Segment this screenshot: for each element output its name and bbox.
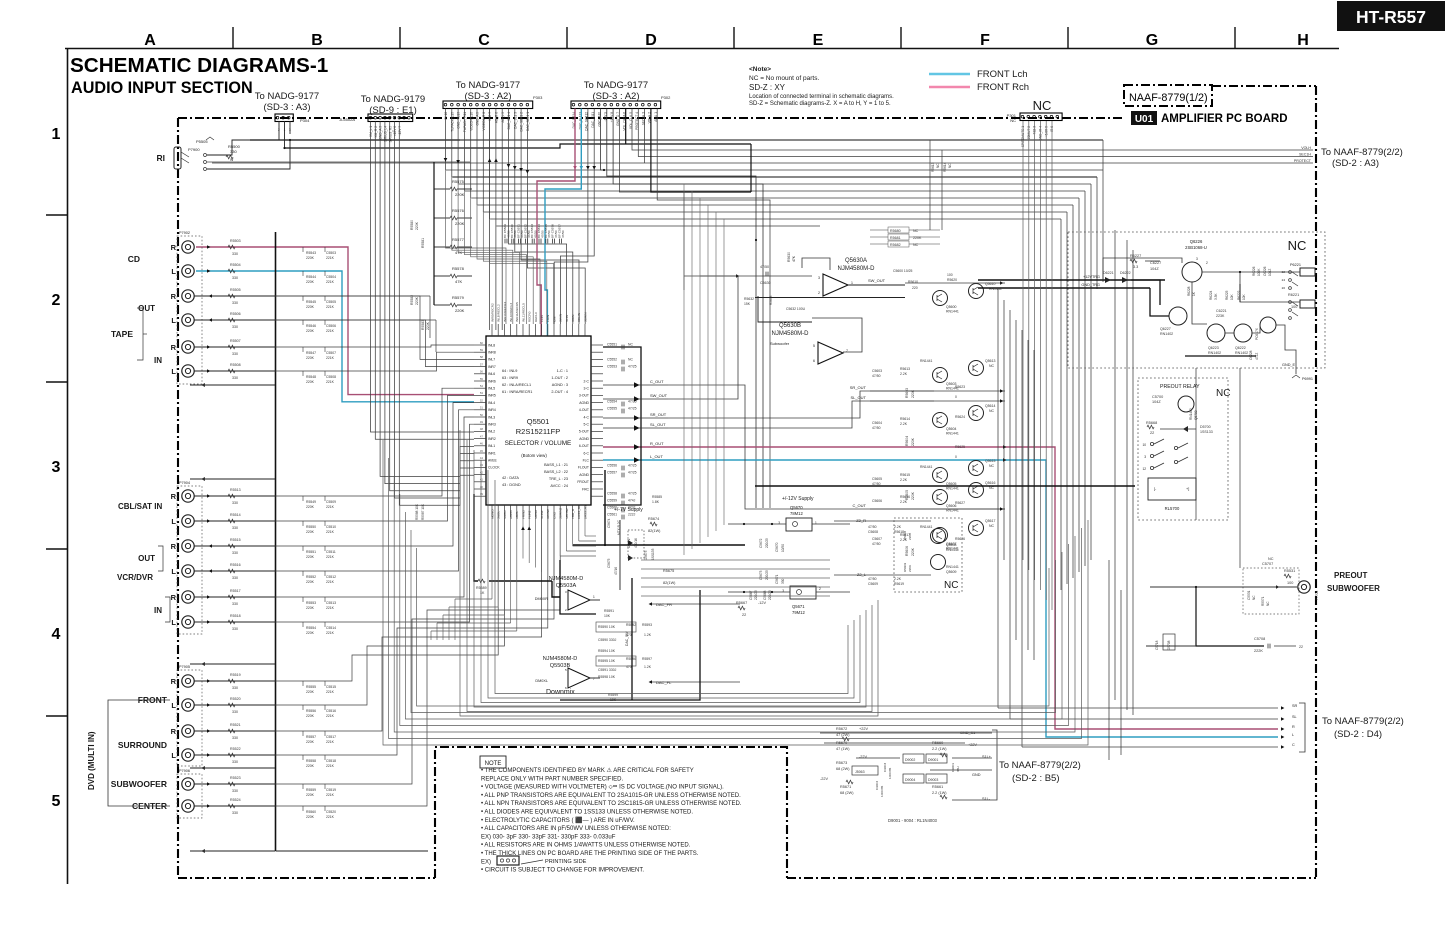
svg-text:VOLH: VOLH (1301, 146, 1311, 150)
wire VOLH (655, 149, 1313, 151)
svg-text:• VOLTAGE (MEASURED WITH VOLTM: • VOLTAGE (MEASURED WITH VOLTMETER) ⬦▭ I… (481, 785, 724, 791)
svg-text:221K: 221K (326, 256, 335, 260)
svg-text:2.2K: 2.2K (900, 478, 908, 482)
svg-text:47: 47 (480, 434, 484, 438)
svg-text:R5614: R5614 (900, 417, 910, 421)
svg-text:SBLIN2: SBLIN2 (565, 508, 569, 519)
svg-text:C6227: C6227 (1150, 261, 1161, 265)
wire P303 into IC top (446, 170, 507, 324)
svg-text:C5516: C5516 (326, 709, 336, 713)
svg-text:220/25: 220/25 (765, 570, 769, 580)
svg-text:C5518: C5518 (326, 759, 336, 763)
svg-text:F: F (980, 32, 990, 49)
svg-text:To NAAF-8779(2/2): To NAAF-8779(2/2) (1321, 147, 1403, 158)
svg-text:R5630: R5630 (787, 252, 791, 262)
svg-text:3: 3 (818, 276, 820, 280)
svg-text:ADCL: ADCL (515, 510, 519, 519)
svg-text:5-OUT: 5-OUT (579, 430, 589, 434)
buffer outputs (870, 390, 1005, 392)
svg-text:3.3K: 3.3K (1214, 293, 1218, 300)
svg-text:(SD-3 : A2): (SD-3 : A2) (465, 91, 512, 102)
svg-text:R5613: R5613 (931, 162, 935, 172)
wire CD R to IC (magenta) (196, 247, 474, 395)
svg-text:SLIN: SLIN (565, 315, 569, 322)
svg-text:BASS_R2: BASS_R2 (577, 505, 581, 519)
svg-text:1SS133: 1SS133 (651, 548, 655, 560)
svg-text:47/25: 47/25 (628, 464, 637, 468)
svg-text:P7905: P7905 (179, 665, 190, 669)
svg-text:R5605: R5605 (905, 490, 909, 500)
svg-text:220K: 220K (911, 547, 915, 556)
svg-text:R5523: R5523 (230, 776, 241, 780)
svg-text:20: 20 (1282, 286, 1286, 290)
svg-text:FLIN: FLIN (540, 315, 544, 322)
svg-text:47/50: 47/50 (561, 230, 565, 238)
svg-text:63 : INR9: 63 : INR9 (502, 376, 518, 380)
svg-text:330: 330 (232, 736, 238, 740)
svg-text:• ELECTROLYTIC CAPACITORS ( ⬛: • ELECTROLYTIC CAPACITORS ( ⬛— ) ARE IN … (481, 816, 635, 824)
svg-text:NC: NC (1033, 98, 1052, 113)
svg-text:221K: 221K (326, 280, 335, 284)
grid ticks left (46, 214, 68, 216)
svg-text:220K: 220K (911, 437, 915, 446)
svg-text:220K: 220K (306, 280, 315, 284)
svg-text:R5554: R5554 (306, 626, 316, 630)
svg-text:R: R (1292, 725, 1295, 729)
svg-text:100: 100 (1287, 581, 1293, 585)
svg-text:24: 24 (1282, 278, 1286, 282)
svg-text:G: G (1146, 32, 1158, 49)
svg-text:OUT: OUT (138, 554, 155, 563)
svg-text:221K: 221K (326, 740, 335, 744)
svg-text:C5675: C5675 (607, 558, 611, 568)
svg-text:220K: 220K (306, 714, 315, 718)
svg-text:R: R (171, 492, 177, 501)
svg-text:C5553: C5553 (607, 365, 617, 369)
svg-text:AVEE: AVEE (488, 459, 498, 463)
svg-text:Q5614: Q5614 (985, 404, 996, 408)
svg-text:IN: IN (154, 356, 162, 365)
svg-text:GND_A 9: GND_A 9 (476, 112, 480, 126)
svg-text:R5580: R5580 (410, 220, 414, 230)
svg-text:R5675: R5675 (663, 569, 674, 573)
svg-text:220K: 220K (455, 308, 465, 313)
svg-text:R5590 10K: R5590 10K (598, 625, 616, 629)
svg-text:EX) 030- 3pF 330- 33pF 331- 33: EX) 030- 3pF 330- 33pF 331- 330pF 333- 0… (481, 834, 616, 840)
svg-text:ADCR: ADCR (509, 509, 513, 519)
svg-text:R5591: R5591 (604, 609, 614, 613)
svg-text:42 : DATA: 42 : DATA (502, 476, 519, 480)
svg-text:221K: 221K (326, 555, 335, 559)
wire CD L to IC (cyan) (196, 271, 474, 402)
svg-text:2.2K: 2.2K (894, 525, 902, 529)
svg-text:CLOCK: CLOCK (488, 466, 500, 470)
svg-text:SCHEMATIC DIAGRAMS-1: SCHEMATIC DIAGRAMS-1 (70, 54, 328, 77)
svg-text:2-OUT : 4: 2-OUT : 4 (551, 390, 568, 394)
wire out rows (998, 707, 1278, 709)
svg-text:SUBWOOFER: SUBWOOFER (1327, 584, 1380, 593)
svg-text:DVD (MULTI IN): DVD (MULTI IN) (87, 731, 96, 790)
svg-text:2.2K: 2.2K (900, 372, 908, 376)
connector P304 (275, 114, 293, 122)
svg-text:NOTE: NOTE (485, 761, 502, 767)
svg-text:CIN: CIN (552, 317, 556, 322)
svg-text:P6221: P6221 (1290, 263, 1301, 267)
svg-text:Q6227: Q6227 (1160, 327, 1171, 331)
svg-text:R5506: R5506 (230, 312, 241, 316)
svg-text:R5524: R5524 (230, 798, 241, 802)
svg-text:R5668: R5668 (1146, 421, 1157, 425)
svg-text:R5595 10K: R5595 10K (598, 659, 616, 663)
svg-text:R5579: R5579 (452, 295, 465, 300)
svg-text:C5600 10/25: C5600 10/25 (893, 269, 913, 273)
svg-text:P303: P303 (533, 95, 543, 100)
svg-text:DAC_SBL1 1: DAC_SBL1 1 (526, 112, 530, 131)
svg-text:R5556: R5556 (306, 709, 316, 713)
svg-text:SD-Z : XY: SD-Z : XY (749, 83, 786, 92)
connector box P7905 (177, 670, 202, 766)
wire staircase multi-in to IC bottom (275, 517, 498, 681)
svg-text:221K: 221K (326, 606, 335, 610)
wire FRONT Lch DAC_FL (cyan) (545, 109, 581, 337)
svg-text:2SB1068-U: 2SB1068-U (1185, 245, 1207, 250)
svg-text:330: 330 (232, 811, 238, 815)
svg-text:c12V 6: c12V 6 (393, 126, 397, 136)
svg-text:R5504: R5504 (230, 263, 241, 267)
svg-text:1-C : 1: 1-C : 1 (557, 369, 568, 373)
svg-text:61 : INRA/RECR1: 61 : INRA/RECR1 (502, 390, 532, 394)
svg-text:68 (2W): 68 (2W) (840, 791, 854, 795)
svg-text:L_OUT: L_OUT (650, 454, 663, 459)
svg-text:223K: 223K (1216, 314, 1225, 318)
svg-text:AGND : 3: AGND : 3 (552, 383, 568, 387)
svg-text:Q5600: Q5600 (946, 305, 957, 309)
svg-text:RECL0: RECL0 (534, 312, 538, 322)
svg-text:L: L (171, 367, 176, 376)
svg-text:TRE_R: TRE_R (571, 508, 575, 519)
svg-text:3-C: 3-C (584, 387, 590, 391)
svg-text:L: L (171, 701, 176, 710)
svg-text:100: 100 (947, 273, 953, 277)
svg-text:D5700: D5700 (1200, 425, 1211, 429)
svg-text:47 (1W): 47 (1W) (836, 747, 850, 751)
wire buffer to right verticals (1004, 390, 1006, 392)
svg-text:DAC_SL1 3: DAC_SL1 3 (513, 112, 517, 129)
svg-text:53: 53 (480, 391, 484, 395)
svg-text:55: 55 (480, 377, 484, 381)
svg-text:NC: NC (989, 524, 995, 528)
svg-text:NC: NC (1252, 595, 1256, 600)
headphone amp NC block (1068, 232, 1325, 368)
wire inner loops (460, 430, 878, 716)
svg-text:AGND: AGND (579, 473, 589, 477)
svg-text:C5520: C5520 (326, 810, 336, 814)
svg-text:INRB/RECR2: INRB/RECR2 (490, 303, 494, 322)
svg-text:P7906: P7906 (179, 769, 190, 773)
svg-text:47K: 47K (455, 279, 462, 284)
board border bottom right (787, 877, 1316, 879)
svg-text:SW_OUT: SW_OUT (650, 393, 668, 398)
svg-text:C5670: C5670 (775, 542, 779, 552)
svg-text:222K: 222K (1254, 649, 1263, 653)
svg-text:<Note>: <Note> (749, 66, 771, 73)
svg-text:C5515: C5515 (326, 685, 336, 689)
svg-text:DAC_SW: DAC_SW (625, 631, 629, 646)
svg-text:D6221: D6221 (1103, 271, 1114, 275)
svg-text:R5515: R5515 (230, 538, 241, 542)
svg-text:1SS133: 1SS133 (1200, 430, 1213, 434)
grid ruler left line (67, 49, 69, 885)
svg-text:C5554: C5554 (607, 400, 617, 404)
wire SEC1H (649, 156, 1313, 158)
wire IC bottom drops (491, 517, 493, 599)
svg-text:R5614: R5614 (943, 162, 947, 172)
svg-text:INR8: INR8 (488, 351, 496, 355)
svg-text:1.2K: 1.2K (644, 665, 652, 669)
model label HT-R557 (1337, 1, 1445, 31)
svg-text:3-OUT: 3-OUT (579, 394, 589, 398)
svg-text:0: 0 (955, 395, 957, 399)
svg-text:D: D (645, 32, 657, 49)
svg-text:C5671: C5671 (775, 574, 779, 584)
svg-text:To NAAF-8779(2/2): To NAAF-8779(2/2) (1322, 716, 1404, 727)
svg-text:SBLIN: SBLIN (577, 313, 581, 322)
outputs to NAAF D4 (1281, 706, 1284, 709)
svg-text:NC: NC (989, 364, 995, 368)
svg-text:220K: 220K (306, 505, 315, 509)
svg-text:47/25: 47/25 (628, 407, 637, 411)
svg-text:R5514: R5514 (230, 513, 241, 517)
svg-text:C5504: C5504 (326, 275, 336, 279)
svg-text:220K: 220K (306, 580, 315, 584)
svg-text:AUDIO INPUT SECTION: AUDIO INPUT SECTION (71, 79, 253, 97)
svg-text:Q5613: Q5613 (985, 359, 996, 363)
svg-text:C5510: C5510 (326, 525, 336, 529)
svg-text:INR5: INR5 (488, 394, 496, 398)
svg-text:82(1W): 82(1W) (663, 581, 676, 585)
svg-text:NC: NC (936, 163, 940, 168)
svg-text:47K: 47K (792, 255, 796, 262)
svg-text:47/50: 47/50 (872, 542, 881, 546)
svg-text:221K: 221K (326, 505, 335, 509)
svg-text:INL11/RECL5: INL11/RECL5 (521, 303, 525, 322)
svg-text:Q5608: Q5608 (946, 543, 957, 547)
svg-text:Q5501: Q5501 (527, 417, 550, 426)
svg-text:PI 16: PI 16 (444, 112, 448, 120)
svg-text:221K: 221K (326, 380, 335, 384)
svg-text:R5582: R5582 (410, 295, 414, 305)
svg-text:SD-Z = Schematic diagrams-Z. X: SD-Z = Schematic diagrams-Z. X = A to H,… (749, 101, 891, 107)
svg-text:10: 10 (1142, 443, 1146, 447)
svg-text:Q5671: Q5671 (792, 604, 805, 609)
legend FRONT Rch (929, 86, 970, 88)
svg-text:GND_TU13: GND_TU13 (457, 112, 461, 129)
svg-text:R5575: R5575 (452, 179, 465, 184)
svg-text:INL4: INL4 (488, 401, 495, 405)
svg-text:221K: 221K (326, 714, 335, 718)
svg-text:Q5609: Q5609 (946, 570, 957, 574)
svg-text:220/25: 220/25 (768, 590, 772, 600)
svg-text:To NADG-9177: To NADG-9177 (255, 91, 319, 102)
svg-text:B: B (311, 32, 323, 49)
svg-text:R5608: R5608 (903, 531, 907, 540)
svg-text:R5682: R5682 (890, 243, 901, 247)
svg-text:C5513: C5513 (326, 601, 336, 605)
svg-text:TAPE: TAPE (111, 329, 133, 339)
svg-text:RN1441: RN1441 (946, 548, 959, 552)
wire SL_OUT route (668, 401, 934, 428)
svg-text:INR3: INR3 (488, 423, 496, 427)
svg-text:220/25: 220/25 (754, 590, 758, 600)
svg-text:47/50: 47/50 (760, 265, 769, 269)
svg-text:+22V: +22V (859, 727, 868, 731)
svg-text:3: 3 (1144, 455, 1146, 459)
relay RL5700 preout block (1138, 378, 1228, 520)
svg-text:220/25: 220/25 (765, 538, 769, 548)
svg-text:SEC1H: SEC1H (1299, 153, 1311, 157)
svg-text:Q5615: Q5615 (985, 459, 996, 463)
svg-text:-22V: -22V (859, 755, 867, 759)
svg-text:2-C: 2-C (584, 379, 590, 383)
svg-text:XM_L 1: XM_L 1 (369, 126, 373, 137)
svg-text:SRIN: SRIN (571, 315, 575, 322)
connector box P7906 (177, 774, 202, 818)
svg-text:MIC 7: MIC 7 (488, 112, 492, 121)
svg-text:PRINTING SIDE: PRINTING SIDE (545, 859, 587, 865)
svg-text:BASS_L2 : 22: BASS_L2 : 22 (544, 470, 568, 474)
svg-text:330: 330 (232, 501, 238, 505)
svg-text:221K: 221K (326, 356, 335, 360)
svg-text:R5604: R5604 (905, 436, 909, 446)
svg-text:R5516: R5516 (230, 563, 241, 567)
svg-text:39: 39 (480, 492, 484, 496)
svg-text:221K: 221K (326, 631, 335, 635)
svg-text:R5624: R5624 (955, 415, 965, 419)
svg-text:C5668: C5668 (763, 590, 767, 600)
svg-text:56: 56 (480, 370, 484, 374)
bus top horizontals (460, 139, 1103, 141)
NOTE block (480, 756, 506, 768)
svg-text:INL7: INL7 (488, 358, 495, 362)
svg-text:A: A (144, 32, 156, 49)
svg-text:C5674: C5674 (607, 518, 611, 528)
svg-text:INR7: INR7 (488, 365, 496, 369)
svg-text:R5671: R5671 (840, 785, 851, 789)
svg-text:OUT: OUT (138, 304, 155, 313)
svg-text:SW_OUT: SW_OUT (868, 278, 886, 283)
svg-text:D9001 - 9004 : RL1N4003: D9001 - 9004 : RL1N4003 (888, 818, 938, 823)
svg-text:C5608: C5608 (868, 530, 878, 534)
svg-text:C5672: C5672 (759, 538, 763, 548)
svg-text:AGND: AGND (579, 401, 589, 405)
wire R_OUT (magenta) (603, 447, 1278, 729)
svg-text:FLOUT: FLOUT (578, 466, 589, 470)
svg-text:Q5700: Q5700 (1194, 410, 1198, 420)
svg-text:SWIN: SWIN (559, 314, 563, 322)
svg-text:220K: 220K (306, 305, 315, 309)
svg-text:R5588 10K: R5588 10K (415, 503, 419, 520)
svg-text:R6224: R6224 (1209, 290, 1213, 300)
svg-text:E: E (813, 32, 824, 49)
svg-text:SWIN2: SWIN2 (546, 509, 550, 519)
wire SR_OUT route (668, 391, 934, 418)
svg-text:3: 3 (782, 589, 784, 593)
svg-text:NC: NC (1010, 118, 1016, 123)
svg-text:H: H (1297, 32, 1309, 49)
svg-text:RN1402: RN1402 (1160, 332, 1173, 336)
svg-text:NC: NC (913, 243, 919, 247)
svg-text:DAC_SR1 4: DAC_SR1 4 (507, 112, 511, 130)
svg-text:3.3: 3.3 (1133, 265, 1138, 269)
svg-text:R6226: R6226 (1252, 266, 1256, 276)
wire bundle P303 mid drops (489, 109, 491, 331)
svg-text:NC: NC (1268, 557, 1274, 561)
svg-text:DM0XL: DM0XL (535, 679, 548, 683)
svg-text:C5556: C5556 (607, 464, 617, 468)
wire FRONT Rch DAC_FR (magenta) (537, 109, 575, 337)
svg-text:R5632: R5632 (744, 297, 754, 301)
IC output arrows (603, 384, 668, 386)
svg-text:33U: 33U (956, 766, 960, 772)
svg-text:INR1: INR1 (488, 451, 496, 455)
svg-text:FLC: FLC (583, 459, 590, 463)
svg-text:45: 45 (480, 449, 484, 453)
svg-text:R5545: R5545 (306, 300, 316, 304)
svg-text:SLIN2: SLIN2 (540, 510, 544, 519)
svg-text:40: 40 (480, 485, 484, 489)
svg-text:S1L-: S1L- (982, 797, 991, 801)
svg-text:R2S15211FP: R2S15211FP (516, 427, 560, 436)
svg-text:47/25: 47/25 (628, 365, 637, 369)
svg-text:C5708: C5708 (1254, 637, 1265, 641)
board name NAAF-8779(1/2) (1124, 85, 1212, 106)
svg-text:330: 330 (232, 276, 238, 280)
svg-text:C5707: C5707 (1262, 562, 1273, 566)
connector P302 (571, 101, 661, 109)
svg-text:-22V: -22V (820, 777, 828, 781)
svg-text:330: 330 (232, 627, 238, 631)
wire nested loops (383, 440, 1088, 745)
svg-text:42: 42 (480, 470, 484, 474)
svg-text:R5603: R5603 (905, 388, 909, 398)
svg-text:R: R (171, 593, 177, 602)
svg-text:2: 2 (818, 291, 820, 295)
svg-text:NC: NC (948, 163, 952, 168)
svg-text:47/50: 47/50 (872, 426, 881, 430)
downmix thick frame (560, 560, 596, 614)
svg-text:C5511: C5511 (326, 550, 336, 554)
svg-text:C5700: C5700 (1152, 395, 1163, 399)
svg-text:R5543: R5543 (306, 251, 316, 255)
transistor pairs buffer column (933, 291, 948, 306)
svg-text:R6228: R6228 (1187, 286, 1191, 296)
svg-text:To NAAF-8779(2/2): To NAAF-8779(2/2) (999, 760, 1081, 771)
svg-text:R5623: R5623 (955, 385, 965, 389)
svg-text:(SD-3 : A2): (SD-3 : A2) (593, 91, 640, 102)
svg-text:C5632 100U: C5632 100U (786, 307, 806, 311)
svg-text:P7900: P7900 (188, 147, 200, 152)
svg-text:R5518: R5518 (230, 614, 241, 618)
svg-text:RECR0: RECR0 (528, 311, 532, 322)
svg-text:220K: 220K (911, 491, 915, 500)
svg-text:15K: 15K (744, 302, 751, 306)
svg-text:1.2K: 1.2K (644, 633, 652, 637)
svg-text:R5587 10K: R5587 10K (421, 503, 425, 520)
svg-text:330: 330 (232, 576, 238, 580)
svg-text:54: 54 (480, 384, 484, 388)
svg-text:SUBWOOFER: SUBWOOFER (111, 779, 167, 789)
svg-text:R5626: R5626 (955, 537, 965, 541)
